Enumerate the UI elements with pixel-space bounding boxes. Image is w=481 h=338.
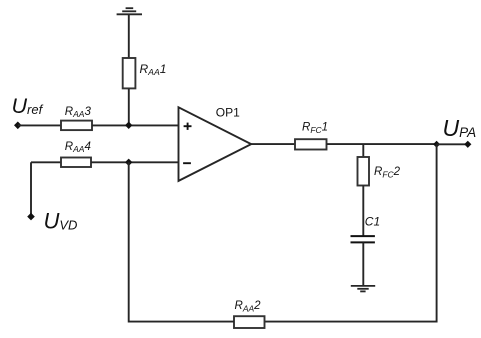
label OP1	[216, 106, 240, 120]
op-amp OP1	[179, 107, 252, 181]
node D (output node UPA)	[433, 141, 440, 148]
capacitor C1	[351, 236, 375, 242]
resistor RAA4	[61, 158, 91, 168]
label C1	[365, 215, 380, 229]
svg-text:RAA2: RAA2	[235, 300, 262, 313]
label RAA2	[235, 300, 262, 313]
wire op-amp output to RFC1	[251, 143, 295, 145]
ground (bottom)	[351, 286, 375, 292]
node B (junction - input)	[125, 159, 132, 166]
resistor RAA3	[61, 121, 92, 131]
svg-text:RAA4: RAA4	[65, 141, 91, 154]
wire feedback bottom left segment	[129, 321, 234, 323]
terminal Uref	[14, 122, 22, 130]
svg-text:RAA3: RAA3	[65, 106, 92, 119]
label RFC1	[302, 122, 328, 135]
label RAA1	[140, 62, 167, 77]
wire C1 to ground	[362, 242, 364, 285]
svg-text:RFC1: RFC1	[302, 122, 328, 135]
wire feedback right vertical	[436, 144, 438, 322]
resistor RFC2	[358, 157, 370, 186]
wire node C down to RFC2	[362, 144, 364, 157]
resistor RAA2	[234, 316, 265, 328]
label RAA4	[65, 141, 91, 154]
resistor RFC1	[295, 139, 327, 149]
svg-text:RFC2: RFC2	[374, 166, 401, 179]
wire RAA1 to node A	[128, 89, 130, 126]
label Uref	[12, 94, 44, 118]
svg-text:UPA: UPA	[443, 115, 477, 141]
wire feedback left vertical to node B	[128, 162, 130, 322]
resistor RAA1	[123, 58, 136, 88]
wire feedback bottom right segment	[265, 321, 437, 323]
svg-text:UVD: UVD	[44, 208, 78, 233]
node A (junction + input)	[125, 122, 132, 129]
wire UVD corner to RAA4	[31, 161, 61, 163]
terminal UPA	[464, 141, 471, 148]
wire RAA3 to op-amp + input	[92, 124, 179, 126]
svg-text:OP1: OP1	[216, 106, 240, 120]
op-amp - pin mark	[183, 162, 191, 164]
wire UVD vertical	[30, 162, 32, 216]
label UPA	[443, 115, 477, 141]
wire RFC1 to node C to UPA node	[327, 143, 437, 145]
wire Uref to RAA3	[18, 124, 61, 126]
svg-text:C1: C1	[365, 215, 380, 229]
wire node D to UPA terminal	[437, 143, 468, 145]
wire RAA4 to op-amp - input	[91, 161, 179, 163]
svg-text:Uref: Uref	[12, 94, 44, 118]
ground (top, inverted)	[117, 8, 142, 14]
wire RFC2 to C1	[362, 186, 364, 237]
terminal UVD	[27, 213, 35, 221]
svg-text:RAA1: RAA1	[140, 62, 167, 77]
label UVD	[44, 208, 78, 233]
op-amp + pin mark	[184, 123, 192, 130]
label RAA3	[65, 106, 92, 119]
wire top ground to RAA1	[128, 14, 130, 58]
label RFC2	[374, 166, 401, 179]
